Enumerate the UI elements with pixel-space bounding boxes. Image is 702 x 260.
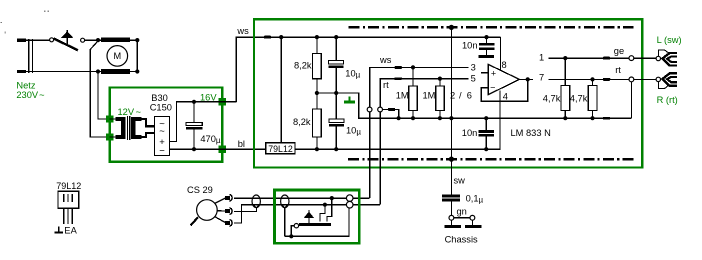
wire square to primary <box>110 118 116 120</box>
connector circle A out <box>346 195 353 202</box>
wire rt signal <box>380 79 468 205</box>
cartridge pin 1 <box>215 195 233 204</box>
cinch jack L <box>656 50 677 66</box>
wire plug bottom <box>26 71 98 73</box>
node R4 bottom <box>438 116 442 120</box>
capacitor C5 10n <box>462 118 494 149</box>
connector circle ws <box>367 107 372 112</box>
node mute B <box>323 203 327 207</box>
motor M1 winding top <box>98 39 137 41</box>
resistor R2 8,2k <box>293 93 321 149</box>
chassis ground left <box>444 220 461 228</box>
wire mute gnd rail <box>285 208 349 236</box>
node R5 bottom <box>563 116 567 120</box>
regulator pinout 79L12 <box>55 181 82 236</box>
wire mid rail <box>317 93 632 118</box>
wire gnd to rt connector <box>630 82 632 118</box>
wire output 1 <box>549 57 632 59</box>
node C4 top <box>484 35 488 39</box>
svg-text:M: M <box>113 51 121 61</box>
node R6 bottom <box>590 116 594 120</box>
port square 0V <box>219 146 226 153</box>
wire pin 8 <box>499 37 501 70</box>
resistor R6 4,7k <box>570 79 597 118</box>
wire switch to motor node <box>85 39 98 41</box>
svg-text:gn: gn <box>457 207 467 217</box>
node switch output <box>96 38 100 42</box>
muting switch box <box>275 190 360 243</box>
svg-text:16V: 16V <box>200 92 217 102</box>
wire rectifier plus to 16V rail <box>170 102 237 142</box>
node cap plus <box>192 100 196 104</box>
svg-text:/: / <box>459 90 462 100</box>
wire ws down to 79L12 <box>280 37 282 143</box>
wire plus input stub <box>481 72 488 74</box>
svg-text:B30: B30 <box>151 93 168 103</box>
wire 16V riser to ws <box>236 37 500 102</box>
big amplifier board box <box>254 19 642 167</box>
svg-text:1: 1 <box>539 52 544 62</box>
svg-text:10µ: 10µ <box>345 69 360 80</box>
node motor bottom right <box>135 69 139 73</box>
power supply box <box>110 87 223 161</box>
port square primary top <box>106 115 113 122</box>
regulator IC2 79L12 <box>266 143 295 154</box>
wire to transformer top <box>98 72 110 120</box>
top shield rail <box>349 26 634 28</box>
stray speck top-left <box>1 11 49 34</box>
node mute gnd <box>289 234 293 238</box>
svg-text:1M: 1M <box>423 91 436 101</box>
transformer T1 core <box>126 116 128 140</box>
svg-text:A: A <box>71 226 78 236</box>
capacitor C4 10n <box>462 37 495 58</box>
node shield top <box>449 25 454 30</box>
wire shield vertical / sw <box>450 27 452 194</box>
svg-text:ws: ws <box>379 55 392 65</box>
wire connector to mid rail <box>383 110 399 119</box>
node plug bottom <box>96 69 100 73</box>
svg-text:−: − <box>490 82 495 92</box>
node bl rail R2 <box>315 147 319 151</box>
svg-text:8,2k: 8,2k <box>293 117 311 127</box>
connector bead rt out <box>603 78 610 81</box>
resistor R4 1M <box>423 79 445 119</box>
transformer T1 secondary <box>131 117 141 139</box>
svg-text:5: 5 <box>471 74 476 84</box>
node mid rail R1 <box>315 91 319 95</box>
bottom shield rail <box>348 158 633 160</box>
wire shield cable1 <box>234 207 257 211</box>
connector bead gnd <box>388 108 395 111</box>
capacitor C6 0,1u <box>442 193 483 215</box>
op-amp U1 <box>488 64 519 94</box>
motor M1 <box>107 46 128 67</box>
node R1 top <box>315 35 319 39</box>
cartridge pin 2 <box>217 208 232 215</box>
svg-text:LM 833 N: LM 833 N <box>511 128 551 138</box>
connector bead rt signal <box>395 77 402 80</box>
transformer T1 primary <box>115 117 125 139</box>
svg-text:4: 4 <box>503 91 508 101</box>
node R6 top <box>590 77 594 81</box>
svg-text:Chassis: Chassis <box>445 235 478 245</box>
connector bead ws signal <box>395 66 402 69</box>
svg-text:E: E <box>64 226 70 236</box>
node 1M R4 top <box>438 77 442 81</box>
rectifier B1 B30 C150 <box>155 117 170 157</box>
node R3 bottom <box>411 116 415 120</box>
connector bead ge <box>603 57 610 60</box>
connector circle gn right <box>470 215 475 220</box>
capacitor C1 470u <box>186 102 221 149</box>
svg-text:230V~: 230V~ <box>16 90 45 100</box>
svg-text:rt: rt <box>615 65 621 75</box>
svg-text:ws: ws <box>236 26 249 36</box>
svg-text:sw: sw <box>454 175 466 185</box>
wire to cinch R <box>634 78 656 80</box>
svg-text:CS 29: CS 29 <box>187 185 213 195</box>
node shield bottom <box>449 157 454 162</box>
svg-text:7: 7 <box>539 72 544 82</box>
node cap minus <box>192 147 196 151</box>
node 1M R3 top <box>411 65 415 69</box>
svg-text:10n: 10n <box>462 128 478 138</box>
node output <box>526 77 530 81</box>
mute arrow <box>304 210 314 223</box>
svg-text:4,7k: 4,7k <box>570 93 588 103</box>
svg-text:1M: 1M <box>396 91 409 101</box>
svg-text:R (rt): R (rt) <box>657 95 678 105</box>
connector circle ge <box>629 56 634 61</box>
svg-text:Netz: Netz <box>16 81 35 91</box>
wire motor right vertical <box>136 40 138 71</box>
svg-text:4,7k: 4,7k <box>543 93 561 103</box>
connector bead gnd out <box>603 117 610 120</box>
connector circle rt <box>378 107 383 112</box>
resistor R3 1M <box>396 67 418 118</box>
node bl rail C3 <box>334 147 338 151</box>
svg-text:rt: rt <box>383 80 389 90</box>
connector bead ws <box>264 36 271 39</box>
wire sheath2 down <box>284 208 286 237</box>
node ws 79L12 <box>279 35 283 39</box>
wire signal A <box>234 197 370 199</box>
svg-text:8,2k: 8,2k <box>294 61 312 71</box>
node shield mid rail <box>449 116 453 120</box>
svg-text:~: ~ <box>159 126 165 137</box>
wire secondary to rectifier ac1 <box>141 119 155 126</box>
svg-text:3: 3 <box>471 63 476 73</box>
svg-text:79L12: 79L12 <box>56 181 81 191</box>
wire ws signal <box>370 67 469 198</box>
node motor top right <box>135 38 139 42</box>
svg-text:10n: 10n <box>462 40 478 50</box>
svg-text:L (sw): L (sw) <box>657 35 682 45</box>
cable sheath oval 2 <box>281 195 289 209</box>
capacitor C2 10u <box>329 37 361 93</box>
mute pivot circle <box>294 224 298 228</box>
port square primary bottom <box>106 133 113 140</box>
wire bl rail to pin4 <box>295 90 500 149</box>
motor M1 winding bottom <box>98 71 137 73</box>
wire mute contact A <box>327 198 332 221</box>
wire plug top to switch <box>26 39 50 41</box>
node mid rail C2 <box>334 91 338 95</box>
cinch jack R <box>656 73 677 88</box>
wire output stub <box>519 78 533 80</box>
svg-text:−: − <box>159 146 165 157</box>
wire output 7 <box>549 78 632 80</box>
chassis ground right <box>465 220 482 228</box>
svg-text:10µ: 10µ <box>346 125 361 136</box>
svg-text:+: + <box>491 69 496 79</box>
wire gn link <box>454 217 470 219</box>
connector circle gn left <box>449 215 454 220</box>
svg-text:8: 8 <box>502 60 507 70</box>
mains plug <box>17 39 32 74</box>
cartridge CS29 <box>191 200 218 226</box>
wire minus input feedback <box>481 79 528 101</box>
node gnd mid rail <box>397 116 401 120</box>
switch S1 <box>50 30 85 50</box>
port square 16V <box>219 98 226 105</box>
node R5 top <box>563 56 567 60</box>
svg-text:79L12: 79L12 <box>268 144 293 154</box>
connector circle rt out <box>629 77 634 82</box>
wire pivot to gnd rail <box>291 226 294 237</box>
connector circle B out <box>346 201 353 208</box>
node C5 top <box>484 116 488 120</box>
resistor R5 4,7k <box>543 58 570 118</box>
node mute A <box>330 196 334 200</box>
wire mute contact B <box>320 205 325 222</box>
wire diagonal to transformer <box>90 41 110 137</box>
svg-text:bl: bl <box>238 139 245 149</box>
wire to cinch L <box>634 57 656 59</box>
svg-text:ge: ge <box>614 46 624 56</box>
svg-text:0,1µ: 0,1µ <box>466 193 484 204</box>
mute bar <box>299 223 331 226</box>
svg-text:12V ~: 12V ~ <box>118 107 142 117</box>
node C5 bottom <box>484 147 488 151</box>
wire rectifier minus / bl rail <box>170 148 266 150</box>
signal ground symbol <box>344 96 355 103</box>
resistor R1 8,2k <box>294 37 321 93</box>
wire secondary to rectifier ac2 <box>141 133 155 137</box>
svg-text:470µ: 470µ <box>200 134 221 145</box>
svg-text:2: 2 <box>450 90 455 100</box>
svg-text:6: 6 <box>467 90 472 100</box>
node C2 top <box>334 35 338 39</box>
wire signal B <box>234 205 380 223</box>
cable sheath oval 1 <box>252 195 260 209</box>
svg-text:C150: C150 <box>150 103 172 113</box>
capacitor C3 10u <box>329 93 361 149</box>
cartridge pin 3 <box>215 217 233 227</box>
